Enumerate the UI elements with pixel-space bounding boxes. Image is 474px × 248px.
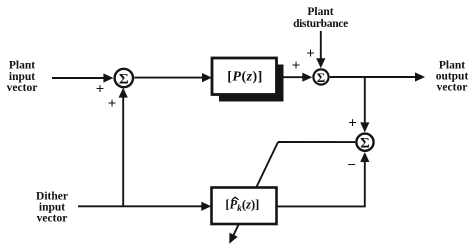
svg-text:−: −: [347, 158, 356, 174]
svg-text:[Pk(z)]: [Pk(z)]: [225, 198, 259, 214]
wire: diagonal adaptation line through block Phat_k(z) with arrowhead: [229, 142, 278, 244]
svg-text:+: +: [306, 46, 315, 62]
wire: error line into S3 left: [278, 141, 355, 143]
block P(z) drop shadow: [219, 65, 284, 102]
svg-text:[P(z)]: [P(z)]: [227, 70, 262, 85]
wire: dither branch up into S1 bottom: [119, 88, 128, 207]
wire: P(z) output to summing junction S2: [284, 73, 313, 82]
svg-text:Plantdisturbance: Plantdisturbance: [293, 6, 348, 30]
wire: plant disturbance into S2 top: [316, 31, 325, 68]
svg-text:+: +: [108, 96, 117, 112]
block P(z): [212, 58, 277, 95]
svg-text:Ditherinputvector: Ditherinputvector: [36, 191, 68, 225]
wire: Phat_k(z) output feedback into S3 bottom: [277, 152, 370, 206]
svg-text:Σ: Σ: [360, 135, 369, 151]
svg-text:Σ: Σ: [317, 70, 326, 85]
wire: S2 to plant output: [330, 72, 425, 81]
svg-text:+: +: [96, 82, 105, 98]
svg-text:+: +: [292, 58, 301, 74]
svg-text:Plantinputvector: Plantinputvector: [7, 60, 38, 94]
svg-text:Plantoutputvector: Plantoutputvector: [436, 60, 469, 94]
summing junction S1 (sigma): [115, 69, 133, 88]
svg-text:+: +: [348, 115, 357, 131]
wire: S1 output to block P(z): [134, 73, 212, 82]
summing junction S2 (sigma): [313, 69, 328, 84]
svg-text:Σ: Σ: [119, 71, 129, 87]
block Phat_k(z): [212, 188, 277, 225]
wire: plant input into summing junction S1: [52, 73, 113, 82]
wire: dither input into block Phat_k(z): [78, 202, 211, 211]
wire: plant output branch down into S3 top: [360, 77, 369, 132]
summing junction S3 (sigma): [356, 134, 373, 152]
